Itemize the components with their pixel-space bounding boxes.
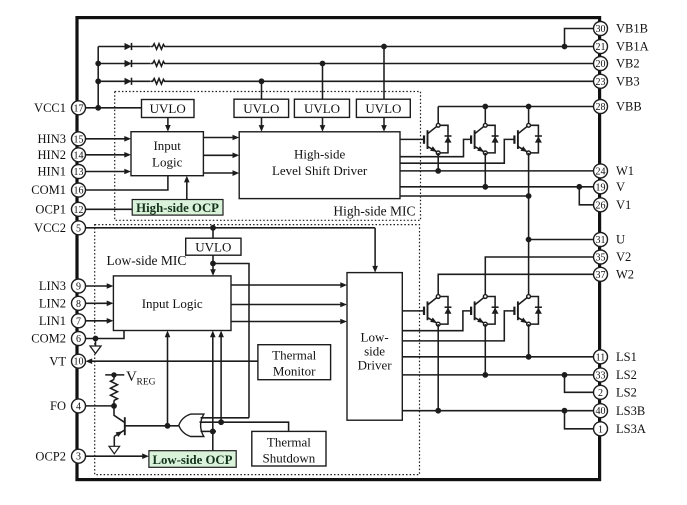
pin 35 V2 [594,250,632,264]
pin 9 LIN3 [39,279,86,293]
diode DQ6 [531,297,542,325]
pin 8 LIN2 [39,296,86,310]
svg-text:5: 5 [76,223,81,234]
wire VB1B link [565,29,594,47]
svg-text:37: 37 [596,270,606,281]
svg-text:11: 11 [596,352,606,363]
wire gate drive Q1 [400,138,424,140]
transistor Q2 (high-side IGBT) [471,123,487,154]
svg-text:2: 2 [598,388,603,399]
svg-text:24: 24 [596,166,606,177]
wire Q2 emitter to V [484,153,486,187]
wire VT with arrow to pin [91,360,258,362]
svg-text:UVLO: UVLO [150,101,186,116]
high-side MIC dotted boundary [115,92,421,221]
svg-text:16: 16 [74,186,84,197]
pin 15 HIN3 [38,132,86,146]
svg-text:HIN2: HIN2 [38,148,66,162]
diode DQ4 [440,297,451,325]
transistor Q1 (high-side IGBT) [424,123,440,154]
node VREG terminal [105,372,124,377]
svg-text:31: 31 [596,235,606,246]
pin 21 VB1A [594,40,649,54]
wire HIN2 [86,154,126,156]
svg-text:12: 12 [74,205,84,216]
svg-text:U: U [616,233,625,247]
pin 5 VCC2 [34,221,85,235]
wire Q4 emitter to LS3B [437,324,439,411]
junction V [482,184,488,190]
UVLO U3 [294,99,349,117]
svg-text:V2: V2 [616,250,631,264]
diode D2 [125,60,132,67]
wire VBB to Q2 collector [484,107,486,126]
wire Q5 emitter to LS2 [484,324,486,375]
pin 19 V [594,180,626,194]
svg-text:LIN1: LIN1 [39,314,66,328]
junction W1 [435,168,441,174]
wire LIN3 [86,285,108,287]
svg-text:14: 14 [74,150,84,161]
svg-text:HIN3: HIN3 [38,132,66,146]
low-side MIC dotted boundary [95,225,420,475]
UVLO U1 [142,100,195,118]
pin 14 HIN2 [38,148,86,162]
arrow UVLO3 to driver [322,117,324,126]
svg-text:side: side [364,344,385,359]
input logic (high-side) U5 [131,132,203,176]
wire FO [86,405,115,407]
svg-text:LS2: LS2 [616,386,637,400]
wire OR input 1 from UVLO branch [201,417,250,419]
wire Q6 emitter to LS1 [528,324,530,357]
svg-text:Thermal: Thermal [272,348,316,363]
wire input logic to driver 1 [203,137,233,139]
pin 2 LS2 [594,385,637,399]
svg-text:8: 8 [76,299,81,310]
diode D1 [125,43,132,50]
svg-text:13: 13 [74,167,84,178]
svg-text:OCP1: OCP1 [35,203,66,217]
wire LS1 line [402,356,593,358]
svg-text:Thermal: Thermal [267,435,311,450]
svg-text:V: V [126,369,137,385]
pin 24 W1 [594,164,635,178]
pin 12 OCP1 [35,202,85,216]
junction VB1B on VB1A row [562,44,568,50]
wire HIN3 [86,138,126,140]
svg-text:LS3B: LS3B [616,404,645,418]
junction LS3B branch [562,408,568,414]
junction VBB/Q2 [482,104,488,110]
svg-text:3: 3 [76,452,81,463]
svg-text:UVLO: UVLO [195,240,231,255]
svg-text:40: 40 [596,406,606,417]
junction VCC2/UVLO [210,225,216,231]
wire bootstrap row VB3 [98,80,593,82]
junction on VCC1 wire [95,105,101,111]
pin 28 VBB [594,100,642,114]
svg-text:Input: Input [153,138,181,153]
svg-text:VB2: VB2 [616,57,640,71]
transistor Q5 (low-side IGBT) [471,295,487,326]
svg-text:LIN3: LIN3 [39,279,66,293]
wire VCC2 to low-side driver [374,228,376,267]
svg-text:High-side: High-side [294,147,346,162]
gate G1 (OR, fault combine) [179,414,204,436]
pin 6 COM2 [31,332,85,346]
diode DQ3 [531,125,542,153]
wire U line [529,239,594,241]
svg-text:7: 7 [76,316,81,327]
svg-text:OCP2: OCP2 [35,449,66,463]
wire VBB to Q1 collector [437,107,439,126]
svg-text:21: 21 [596,42,606,53]
pin 37 W2 [594,267,635,281]
svg-text:LS1: LS1 [616,350,637,364]
wire gate drive Q6 [402,311,514,341]
svg-text:4: 4 [76,401,81,412]
svg-text:35: 35 [596,253,606,264]
junction [381,44,387,50]
wire LS3B to pin 1 [565,411,594,429]
low-side driver U9 [347,273,402,421]
junction V/V1 [576,184,582,190]
svg-text:VT: VT [49,354,66,368]
junction base/feedback [165,423,171,429]
pin 17 VCC1 [34,101,85,115]
pin 13 HIN1 [38,165,86,179]
junction FO/R4/Q7 [111,403,117,409]
pin 31 U [594,233,626,247]
high-side level shift driver U6 [239,132,400,199]
svg-text:VB3: VB3 [616,75,640,89]
wire LS2 to pin 2 [565,375,594,392]
wire W2 line from Q4 collector [438,274,593,296]
pin 40 LS3B [594,404,646,418]
svg-text:UVLO: UVLO [243,101,279,116]
svg-text:VBB: VBB [616,100,642,114]
pin 4 FO [50,399,85,413]
wire UVLO5 feed [212,228,214,238]
svg-text:9: 9 [76,282,81,293]
svg-text:15: 15 [74,134,84,145]
arrow UVLO5 to input logic [210,269,216,276]
transistor Q7 (fault output) [114,406,125,446]
wire UVLO2 feed from VB3 [261,81,263,99]
svg-text:Level Shift Driver: Level Shift Driver [272,163,368,178]
wire Q3 emitter column [528,153,530,297]
wire VCC1 to UVLO1 [86,107,142,109]
svg-text:V: V [616,180,625,194]
pin 1 LS3A [594,422,646,436]
junction LS3B [435,408,441,414]
wire input logic to low driver 1 [231,284,342,286]
svg-text:High-side OCP: High-side OCP [136,201,219,215]
svg-text:Low-: Low- [361,330,389,345]
svg-text:COM1: COM1 [31,183,66,197]
svg-text:LIN2: LIN2 [39,297,66,311]
svg-text:VCC2: VCC2 [34,221,66,235]
UVLO U4 [356,99,410,117]
transistor Q6 (low-side IGBT) [514,295,530,326]
resistor R3 [151,77,167,85]
junction LS1 [526,354,532,360]
pin 16 COM1 [31,183,85,197]
svg-text:Low-side OCP: Low-side OCP [153,453,233,467]
svg-text:30: 30 [596,24,606,35]
wire UVLO3 feed from VB2 [322,64,324,100]
junction sense/Q3 emitter [526,193,532,199]
svg-text:REG: REG [137,378,156,388]
wire input logic to low driver 3 [231,321,342,323]
svg-text:Shutdown: Shutdown [263,451,316,466]
wire TS feedback to input logic [220,336,222,422]
wire bootstrap row VB1A [98,46,593,48]
diode D3 [125,78,132,85]
junction [259,78,265,84]
Low-side OCP block [149,451,236,468]
svg-text:Low-side MIC: Low-side MIC [107,253,187,268]
thermal shutdown U11 [252,431,326,466]
wire driver sense line [400,195,529,197]
wire VBB to Q3 collector [528,107,530,126]
wire V2 line from Q5 collector [485,257,593,297]
wire OCP2 [86,455,144,457]
wire UVLO5 to OR gate branch [213,264,249,418]
pin 33 LS2 [594,368,637,382]
wire bootstrap row VB2 [98,63,593,65]
svg-text:Driver: Driver [358,358,393,373]
pin 10 VT [49,354,85,368]
wire UVLO4 feed from VB1A [383,47,385,100]
junction LS2 branch [562,372,568,378]
svg-text:6: 6 [76,334,81,345]
pin 3 OCP2 [35,449,85,463]
junction on VB3 row [95,78,101,84]
svg-text:VB1B: VB1B [616,22,648,36]
wire gate drive Q2 [400,139,471,156]
svg-text:26: 26 [596,200,606,211]
svg-text:LS3A: LS3A [616,422,646,436]
pin 7 LIN1 [39,314,86,328]
wire input logic to driver 2 [203,154,233,156]
UVLO U7 (low-side) [186,238,241,255]
transistor Q4 (low-side IGBT) [424,295,440,326]
UVLO U2 [234,99,289,117]
junction LS2 [482,372,488,378]
svg-text:COM2: COM2 [31,332,66,346]
arrow UVLO2 to driver [261,117,263,126]
svg-text:20: 20 [596,59,606,70]
junction [320,61,326,67]
svg-text:Logic: Logic [152,155,183,170]
pin 30 VB1B [594,22,648,36]
junction OCP/feedback [210,429,216,435]
junction TS/feedback [218,419,224,425]
thermal monitor U10 [258,345,331,380]
wire W1 line [400,170,594,172]
svg-text:1: 1 [598,424,603,435]
wire UVLO5 output [212,255,214,270]
svg-text:VCC1: VCC1 [34,101,66,115]
High-side OCP block [132,200,223,216]
svg-text:23: 23 [596,77,606,88]
wire input logic to driver 3 [203,172,233,174]
input logic (low-side) U8 [113,276,231,331]
arrow into driver top [372,266,378,273]
junction VBB/Q3 [526,104,532,110]
wire OCP feedback vertical [212,336,214,450]
wire Q7 base to OR gate output [125,425,179,427]
wire fault feedback to input logic [167,336,169,425]
resistor R1 [151,43,167,51]
diode DQ2 [487,125,498,153]
svg-text:19: 19 [596,182,606,193]
diode DQ5 [487,297,498,325]
wire COM1 [86,176,168,190]
wire Q1 emitter to W1 [437,153,439,171]
pin 23 VB3 [594,74,640,88]
junction U [526,237,532,243]
svg-text:17: 17 [74,103,84,114]
wire LIN2 [86,302,108,304]
wire LS2 line [402,374,593,376]
svg-text:UVLO: UVLO [365,101,401,116]
pin 11 LS1 [594,350,637,364]
svg-text:UVLO: UVLO [304,101,340,116]
wire input logic to low driver 2 [231,304,342,306]
pin 20 VB2 [594,57,640,71]
wire gate drive Q4 [402,310,424,312]
junction UVLO5 output [210,261,216,267]
wire LIN1 [86,320,108,322]
wire OR input 2 / thermal shutdown line [200,422,289,431]
junction on VB2 row [95,61,101,67]
svg-text:FO: FO [50,399,66,413]
ground at Q7 emitter [109,446,120,454]
arrow UVLO1 to input logic [167,118,169,126]
svg-text:28: 28 [596,102,606,113]
VBB rail [438,106,593,108]
wire COM2 [86,331,125,339]
svg-text:10: 10 [74,357,84,368]
module case outline [77,18,600,480]
wire OR input 3 / OCP line [201,430,217,432]
resistor R2 [151,60,167,68]
wire gate drive Q5 [402,311,471,331]
wire VCC2 [86,227,376,229]
wire V to V1 link [579,187,593,205]
svg-text:LS2: LS2 [616,368,637,382]
svg-text:33: 33 [596,370,606,381]
ground at COM2 [90,336,101,354]
wire V line [400,186,594,188]
pin 26 V1 [594,198,632,212]
resistor R4 (VREG pull-up) [111,375,118,406]
svg-text:V1: V1 [616,198,631,212]
svg-text:High-side MIC: High-side MIC [333,203,415,218]
svg-text:Monitor: Monitor [273,364,316,379]
arrow High-side OCP to input logic [186,182,188,200]
svg-text:VB1A: VB1A [616,40,649,54]
wire OCP1 [86,208,133,210]
wire LS3B line [402,410,593,412]
wire HIN1 [86,171,126,173]
svg-text:HIN1: HIN1 [38,165,66,179]
wire VCC1 feed vertical to bootstrap rows [97,47,99,108]
arrow UVLO4 to driver [383,117,385,126]
svg-text:Input Logic: Input Logic [142,296,203,311]
diode DQ1 [440,125,451,153]
transistor Q3 (high-side IGBT) [514,123,530,154]
svg-text:W1: W1 [616,164,634,178]
svg-text:W2: W2 [616,268,634,282]
wire gate drive Q3 [400,139,514,163]
